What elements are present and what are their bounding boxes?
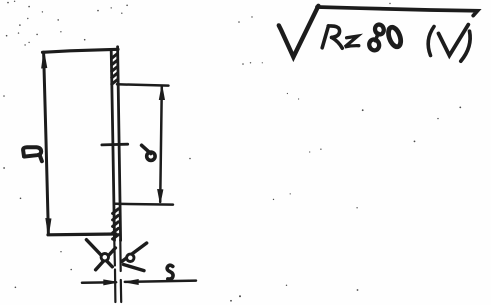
d label <box>142 145 155 160</box>
d dimension: top extension line <box>117 84 169 85</box>
roughness symbol: big check <box>279 6 319 57</box>
hatching: upper section <box>112 54 118 85</box>
flourish arrow left: loop <box>101 254 108 261</box>
roughness text 8 <box>368 23 385 51</box>
flourish arrow right: short stroke <box>124 265 145 271</box>
part outline: left edge / D dimension line <box>44 52 49 234</box>
d dimension arrow down <box>158 190 163 203</box>
hatching: lower section <box>113 209 119 239</box>
section strip: right edge <box>118 47 121 241</box>
part outline: top edge <box>43 49 119 52</box>
D dimension arrow down <box>46 219 51 236</box>
D dimension arrow up <box>42 52 47 68</box>
roughness text R <box>322 26 342 48</box>
flourish arrow right: long stroke <box>122 243 147 262</box>
s label <box>167 265 173 279</box>
hole centre tick <box>102 143 128 146</box>
section strip: left edge <box>111 50 114 241</box>
s extension line right face <box>119 240 122 302</box>
roughness text 0 <box>386 26 403 49</box>
s dimension arrow right-pointing <box>104 280 117 285</box>
s dimension line left segment <box>82 281 116 284</box>
s extension line left face <box>114 240 115 302</box>
part outline: bottom edge <box>48 232 116 236</box>
roughness symbol: overline <box>317 7 478 16</box>
d dimension line <box>160 87 162 203</box>
small check in parens <box>439 25 469 56</box>
d dimension arrow up <box>159 86 164 100</box>
close parenthesis <box>461 31 470 61</box>
flourish arrow left: long stroke <box>86 240 112 267</box>
open parenthesis <box>428 27 434 56</box>
roughness text z <box>345 36 359 47</box>
flourish arrow left: short stroke <box>96 248 116 270</box>
D label <box>23 147 42 161</box>
d dimension: bottom extension line <box>116 203 174 206</box>
s dimension line right segment <box>125 281 196 282</box>
flourish arrow right: loop <box>127 254 134 261</box>
s dimension arrow left-pointing <box>125 280 139 285</box>
